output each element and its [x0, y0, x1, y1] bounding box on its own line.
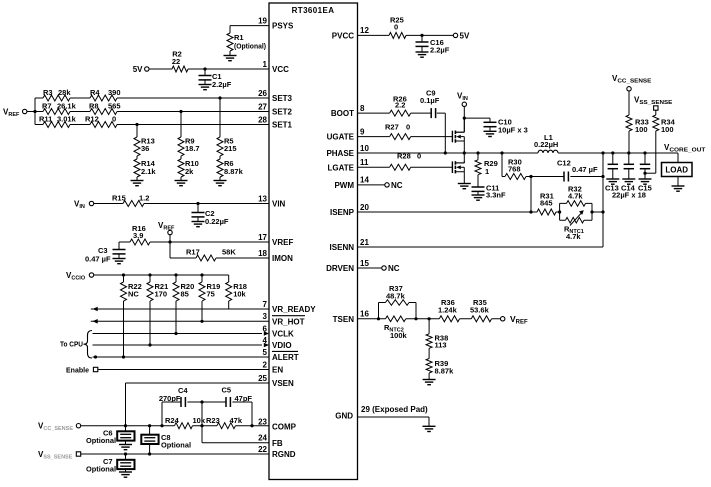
wire RGND pin22	[81, 453, 269, 455]
wire sense column	[602, 153, 604, 247]
svg-text:20: 20	[360, 203, 369, 212]
svg-text:5: 5	[263, 348, 268, 357]
svg-text:0.22µH: 0.22µH	[534, 140, 558, 149]
svg-text:C6: C6	[103, 429, 113, 438]
junction NTC1 right node	[590, 210, 593, 213]
svg-text:R24: R24	[165, 416, 180, 425]
arrow VCLK into IC	[264, 331, 269, 336]
junction C4 branch	[160, 424, 163, 427]
svg-text:RGND: RGND	[272, 450, 296, 459]
svg-text:22: 22	[258, 445, 267, 454]
node Enable terminal	[66, 366, 98, 375]
wire VCLK pin6	[93, 333, 263, 335]
svg-text:21: 21	[360, 238, 369, 247]
svg-text:0: 0	[417, 152, 421, 161]
svg-text:48.7k: 48.7k	[386, 291, 406, 300]
pin 9 UGATE label	[327, 127, 365, 141]
svg-text:27: 27	[258, 102, 267, 111]
pin 12 PVCC label	[332, 26, 370, 40]
junction output C14	[627, 151, 630, 154]
resistor R37 48.7k	[386, 284, 410, 305]
svg-text:C7: C7	[103, 457, 113, 466]
svg-text:C5: C5	[222, 386, 232, 395]
resistor R39 8.87k	[426, 348, 454, 379]
svg-text:Optional: Optional	[161, 443, 191, 450]
svg-text:1.2: 1.2	[139, 194, 149, 203]
wire GND pin29	[358, 417, 430, 426]
pin 19 PSYS label	[258, 16, 294, 30]
junction PVCC C16	[420, 34, 423, 37]
svg-text:3.01k: 3.01k	[57, 115, 77, 124]
svg-text:26: 26	[258, 89, 267, 98]
resistor R34 100	[653, 110, 676, 173]
op-amp U1 RT3601EA controller IC body	[269, 3, 358, 480]
junction VIN-C2	[196, 202, 199, 205]
svg-text:4.7k: 4.7k	[568, 192, 583, 201]
svg-text:53.6k: 53.6k	[470, 305, 490, 314]
wire Q2 drain to phase	[463, 153, 465, 163]
svg-text:47k: 47k	[230, 416, 243, 425]
capacitor C14	[624, 153, 634, 179]
svg-text:VR_HOT: VR_HOT	[272, 317, 305, 326]
resistor R26 2.2	[390, 95, 411, 117]
wire Q1 drain up	[463, 118, 465, 132]
resistor R36 1.24k	[438, 298, 460, 322]
svg-text:7: 7	[263, 300, 268, 309]
svg-text:PWM: PWM	[334, 181, 354, 190]
node NC PWM	[385, 181, 403, 190]
pin 20 ISENP label	[330, 203, 369, 217]
svg-text:5V: 5V	[460, 31, 470, 40]
junction C8 top	[148, 424, 151, 427]
wire TSEN pin16	[358, 318, 417, 320]
wire DRVEN pin15	[358, 267, 382, 269]
svg-text:PVCC: PVCC	[332, 31, 354, 40]
junction VCCIO x202	[200, 273, 203, 276]
junction ALERT left	[94, 355, 97, 358]
node VSS_SENSE terminal left	[38, 450, 81, 461]
node To CPU brace	[60, 331, 92, 359]
ground under C11	[472, 195, 485, 200]
pin 6 VCLK label	[263, 324, 294, 338]
wire 5V to VCC pin1	[149, 68, 269, 70]
resistor R13 36	[134, 125, 155, 157]
resistor R33 100	[626, 91, 649, 153]
resistor R2 22	[172, 50, 188, 73]
svg-text:C8: C8	[161, 433, 171, 442]
junction output C15	[643, 151, 646, 154]
resistor R22 NC pullup	[121, 275, 142, 357]
svg-text:100: 100	[635, 125, 648, 134]
wire Q1 source to phase	[463, 141, 465, 153]
junction VCCIO x176	[174, 273, 177, 276]
ground under C2	[192, 222, 205, 227]
pin 2 EN label	[263, 360, 284, 374]
thermistor RNTC1 4.7k	[564, 210, 584, 241]
svg-text:VCLK: VCLK	[272, 330, 294, 339]
capacitor C15	[640, 153, 650, 179]
capacitor C2 0.22uF	[192, 204, 229, 227]
wire VR_READY pin7	[91, 308, 269, 310]
svg-text:SET3: SET3	[272, 94, 293, 103]
svg-text:100: 100	[661, 125, 674, 134]
svg-text:TSEN: TSEN	[333, 315, 355, 324]
wire VCC_SENSE row COMP	[81, 425, 269, 427]
capacitor C8 Optional	[141, 426, 191, 454]
pin 3 VR_HOT label	[263, 312, 305, 326]
resistor R17 58K	[186, 248, 236, 262]
svg-text:R23: R23	[206, 416, 220, 425]
svg-text:2.2µF: 2.2µF	[430, 46, 450, 55]
svg-text:15: 15	[360, 259, 369, 268]
svg-text:100k: 100k	[390, 331, 408, 340]
resistor R16 3.9	[130, 224, 150, 245]
svg-text:SET2: SET2	[272, 108, 293, 117]
wire C4 C5 top branch	[162, 402, 252, 426]
junction R36 R38	[428, 317, 431, 320]
resistor R1 (Optional)	[227, 26, 266, 55]
svg-text:R12: R12	[85, 115, 99, 124]
pin 16 TSEN label	[333, 310, 370, 324]
pin 24 FB label	[258, 434, 283, 448]
node VIN terminal left	[74, 200, 94, 211]
wire R30 branch	[502, 153, 531, 177]
resistor R9 18.7	[178, 112, 200, 157]
wire EN pin2	[98, 369, 269, 371]
junction NTC1 left node	[558, 210, 561, 213]
svg-text:EN: EN	[272, 366, 283, 375]
junction phase-L1 output	[601, 151, 604, 154]
junction TSEN left node	[377, 317, 380, 320]
resistor R20 85 pullup	[173, 275, 194, 334]
junction SET3 R5	[218, 96, 221, 99]
svg-text:C12: C12	[557, 159, 571, 168]
junction VCCIO x123.5	[122, 273, 125, 276]
svg-text:16: 16	[360, 310, 369, 319]
resistor R7 26.1k	[42, 102, 77, 115]
svg-text:R15: R15	[112, 194, 126, 203]
svg-text:1: 1	[485, 167, 489, 176]
svg-text:VSEN: VSEN	[272, 379, 294, 388]
svg-text:To CPU: To CPU	[60, 342, 83, 349]
svg-text:NC: NC	[128, 290, 139, 299]
svg-text:VDIO: VDIO	[272, 341, 292, 350]
svg-text:29 (Exposed Pad): 29 (Exposed Pad)	[361, 405, 428, 414]
pin 8 BOOT label	[331, 104, 365, 118]
pin 28 SET1 label	[258, 115, 292, 129]
svg-text:R27: R27	[385, 123, 399, 132]
svg-text:0.47 µF: 0.47 µF	[572, 165, 598, 174]
wire SET3 row	[35, 97, 269, 99]
svg-text:Enable: Enable	[66, 366, 89, 375]
svg-text:ISENP: ISENP	[330, 208, 355, 217]
wire VIN pin13	[94, 203, 269, 205]
svg-text:17: 17	[258, 233, 267, 242]
svg-text:0: 0	[112, 115, 116, 124]
svg-text:BOOT: BOOT	[331, 109, 354, 118]
svg-text:10k: 10k	[233, 290, 246, 299]
pin 26 SET3 label	[258, 89, 292, 103]
svg-text:0: 0	[406, 123, 410, 132]
svg-text:14: 14	[360, 176, 369, 185]
junction C8 bottom	[148, 452, 151, 455]
svg-text:ISENN: ISENN	[330, 243, 355, 252]
capacitor C12 0.47uF	[557, 159, 598, 182]
svg-text:26.1k: 26.1k	[57, 102, 77, 111]
wire LOAD to ground	[677, 177, 679, 186]
svg-text:2.2µF: 2.2µF	[212, 80, 232, 89]
junction ISENP R31	[529, 210, 532, 213]
arrow VR_READY	[93, 307, 98, 312]
svg-text:3.3nF: 3.3nF	[486, 191, 506, 200]
pin 11 LGATE label	[327, 158, 369, 172]
capacitor C11 3.3nF	[472, 184, 507, 200]
svg-text:R11: R11	[39, 115, 52, 124]
svg-text:RT3601EA: RT3601EA	[292, 6, 335, 15]
pin 1 VCC label	[263, 60, 290, 74]
wire BOOT pin8	[358, 113, 446, 153]
capacitor C16 2.2uF	[416, 35, 450, 54]
svg-text:3: 3	[263, 312, 268, 321]
capacitor C7 Optional	[86, 454, 135, 474]
svg-text:23: 23	[258, 417, 267, 426]
resistor R21 170 pullup	[147, 275, 168, 345]
svg-text:9: 9	[360, 127, 365, 136]
svg-text:22µF x 18: 22µF x 18	[612, 191, 646, 200]
svg-text:845: 845	[540, 199, 553, 208]
svg-text:R1: R1	[234, 33, 244, 42]
svg-text:R3: R3	[43, 88, 53, 97]
capacitor C10 10uF x 3	[484, 118, 528, 135]
ground under C15	[639, 179, 652, 184]
svg-text:PSYS: PSYS	[272, 22, 294, 31]
junction VCC-C1	[203, 67, 206, 70]
junction R34 C15	[643, 172, 646, 175]
wire LGATE pin11	[358, 166, 453, 168]
svg-text:UGATE: UGATE	[327, 133, 355, 142]
resistor R12 0	[85, 115, 117, 128]
svg-text:R8: R8	[89, 102, 99, 111]
svg-text:12: 12	[360, 26, 369, 35]
capacitor C4 270pF	[159, 386, 189, 407]
pin 29 GND (Exposed Pad) label	[335, 405, 428, 421]
svg-text:DRVEN: DRVEN	[326, 264, 354, 273]
wire VDIO pin4	[93, 344, 263, 346]
label C13 C14 C15 22uF x 18	[605, 184, 652, 200]
pin 15 DRVEN label	[326, 259, 369, 273]
svg-text:13: 13	[258, 194, 267, 203]
svg-text:VIN: VIN	[272, 200, 286, 209]
svg-text:270pF: 270pF	[159, 394, 181, 403]
junction phase Q1Q2	[463, 151, 466, 154]
junction VREF-R16	[168, 240, 171, 243]
ground pin29	[423, 426, 436, 431]
wire ALERT pin5	[93, 356, 270, 358]
pin 17 VREF label	[258, 233, 293, 247]
svg-text:R4: R4	[90, 88, 100, 97]
svg-text:ALERT: ALERT	[272, 353, 299, 362]
wire ISENN pin21	[358, 246, 604, 248]
ground under C10	[484, 131, 497, 136]
svg-text:Optional: Optional	[86, 438, 116, 445]
ground under C13	[606, 179, 619, 184]
svg-text:8: 8	[360, 104, 365, 113]
wire VSEN pin25	[126, 383, 270, 426]
node VREF terminal left	[3, 108, 27, 119]
wire IMON pin18	[170, 257, 269, 259]
svg-text:VREF: VREF	[272, 238, 293, 247]
node NC DRVEN	[382, 264, 400, 273]
pin 27 SET2 label	[258, 102, 292, 116]
resistor R27 0	[385, 123, 411, 140]
junction C6 RGND	[124, 452, 127, 455]
svg-text:0: 0	[394, 23, 398, 32]
load block LOAD	[662, 163, 693, 177]
resistor R24 10k	[165, 416, 206, 429]
svg-text:8.87k: 8.87k	[224, 167, 244, 176]
resistor R23 47k	[206, 416, 243, 429]
node 5V terminal right	[453, 31, 470, 40]
capacitor C13	[608, 153, 618, 179]
wire PHASE pin10	[358, 152, 679, 154]
node VCORE_OUT label	[664, 143, 706, 154]
svg-text:LOAD: LOAD	[665, 166, 688, 175]
wire SET2 row	[35, 111, 269, 113]
ground under R39	[423, 380, 436, 385]
junction phase R29	[476, 151, 479, 154]
transistor Q2 low-side MOSFET	[452, 161, 464, 173]
svg-text:NC: NC	[388, 264, 400, 273]
junction VREF bus SET2	[33, 110, 36, 113]
wire SET1 row	[35, 124, 269, 126]
capacitor C9 0.1uF	[420, 89, 440, 119]
svg-text:3.9: 3.9	[133, 231, 143, 240]
svg-text:VR_READY: VR_READY	[272, 305, 316, 314]
svg-text:24: 24	[258, 434, 267, 443]
svg-text:FB: FB	[272, 439, 283, 448]
junction VCCIO x150	[148, 273, 151, 276]
resistor R11 3.01k	[39, 115, 77, 128]
svg-text:1: 1	[263, 60, 268, 69]
junction VSEN-VCCSENSE	[124, 424, 127, 427]
wire VREF pin17	[119, 235, 269, 258]
ground under Q2	[458, 184, 471, 189]
resistor R18 10k pullup	[226, 275, 247, 309]
svg-text:36: 36	[141, 144, 149, 153]
pin 18 IMON label	[258, 249, 293, 263]
wire VCCIO rail	[94, 274, 229, 276]
svg-text:75: 75	[207, 290, 215, 299]
junction SET2 R9	[179, 110, 182, 113]
wire UGATE pin9	[358, 136, 453, 138]
pin 5 ALERT label	[263, 348, 299, 362]
wire ISENP drop	[530, 177, 532, 213]
svg-text:113: 113	[435, 341, 447, 350]
resistor R35 53.6k	[470, 298, 492, 322]
svg-text:0.1µF: 0.1µF	[420, 96, 440, 105]
ground under C14	[622, 179, 635, 184]
pin 14 PWM label	[334, 176, 369, 190]
ground under R1	[224, 56, 237, 61]
junction R22 ALERT	[122, 355, 125, 358]
svg-text:R17: R17	[186, 248, 200, 257]
svg-text:2.2: 2.2	[395, 101, 405, 110]
node 5V terminal	[133, 65, 149, 74]
resistor R8 565	[89, 102, 121, 115]
inductor L1 0.22uH	[534, 133, 558, 153]
wire PWM pin14	[358, 184, 385, 186]
svg-text:5V: 5V	[133, 65, 143, 74]
junction TSEN right node	[414, 317, 417, 320]
svg-text:8.87k: 8.87k	[435, 367, 455, 376]
svg-text:IMON: IMON	[272, 254, 293, 263]
capacitor C6 Optional	[86, 426, 135, 445]
wire NTC2 parallel box	[379, 303, 417, 319]
wire Q2 source to ground	[463, 172, 465, 184]
resistor R10 2k	[178, 156, 199, 180]
ground under R10	[175, 181, 188, 186]
junction boot cap phase	[444, 151, 447, 154]
svg-text:SET1: SET1	[272, 121, 293, 130]
svg-text:768: 768	[508, 165, 521, 174]
resistor R25 0	[389, 16, 406, 39]
svg-text:VCC: VCC	[272, 65, 289, 74]
svg-text:47pF: 47pF	[235, 394, 253, 403]
resistor R5 215	[217, 98, 237, 156]
ground under C1	[199, 85, 212, 90]
node VREF terminal right	[501, 314, 529, 326]
svg-text:215: 215	[224, 144, 237, 153]
junction C12 output	[601, 175, 604, 178]
svg-text:PHASE: PHASE	[326, 149, 354, 158]
resistor R29 1	[475, 153, 498, 187]
transistor Q1 high-side MOSFET	[452, 131, 464, 143]
svg-text:565: 565	[108, 102, 121, 111]
svg-text:2k: 2k	[185, 167, 194, 176]
svg-text:10k: 10k	[193, 416, 206, 425]
resistor R28 0	[390, 152, 422, 171]
svg-text:22: 22	[172, 57, 180, 66]
pin 4 VDIO label	[263, 336, 292, 350]
svg-text:85: 85	[181, 290, 189, 299]
wire PSYS pin19	[230, 25, 269, 27]
wire FB pin24	[202, 402, 269, 443]
svg-text:18: 18	[258, 249, 267, 258]
svg-text:LGATE: LGATE	[327, 163, 354, 172]
svg-text:18.7: 18.7	[185, 144, 200, 153]
svg-text:11: 11	[360, 158, 369, 167]
junction phase R30	[500, 151, 503, 154]
pin 22 RGND label	[258, 445, 296, 459]
ground under C7	[119, 472, 132, 477]
wire TSEN to divider	[416, 318, 501, 320]
junction R21 VDIO	[148, 343, 151, 346]
junction R24-R23 FB	[200, 424, 203, 427]
svg-text:4.7k: 4.7k	[566, 232, 581, 241]
resistor R30 768	[505, 158, 526, 180]
ground under R6	[214, 181, 227, 186]
svg-text:(Optional): (Optional)	[234, 44, 266, 51]
junction output C13	[611, 151, 614, 154]
svg-text:R7: R7	[42, 102, 52, 111]
svg-text:25: 25	[258, 374, 267, 383]
node VCC_SENSE terminal right	[612, 74, 652, 91]
thermistor RNTC2 100k	[384, 316, 408, 340]
pin 23 COMP label	[258, 417, 297, 431]
svg-text:0.22µF: 0.22µF	[205, 217, 229, 226]
junction C4-C5 FB	[200, 400, 203, 403]
junction R19 VR_HOT	[200, 320, 203, 323]
